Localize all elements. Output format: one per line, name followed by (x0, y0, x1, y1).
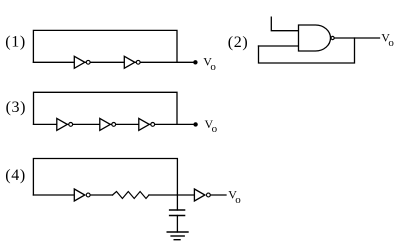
inverter U7 (74, 189, 90, 201)
wire circuit 4 left segment (33, 194, 74, 196)
wire bottom input circuit 2 (259, 45, 299, 47)
wire feedback circuit 2 (259, 38, 355, 63)
svg-text:(2): (2) (228, 34, 248, 51)
wire capacitor to ground (176, 216, 178, 233)
svg-text:(1): (1) (5, 34, 25, 51)
wire resistor to inverter circuit 4 (149, 194, 194, 196)
resistor R1 (113, 192, 150, 199)
inverter U8 (194, 189, 210, 201)
inverter U1 (74, 56, 90, 68)
wire output circuit 2 (335, 37, 380, 39)
wire output circuit 4 (210, 194, 226, 196)
svg-text:(4): (4) (5, 167, 25, 184)
capacitor C1 (170, 210, 185, 216)
svg-text:(3): (3) (6, 99, 26, 116)
node Vo dot circuit 3 (193, 122, 197, 126)
wire bottom circuit 1 (33, 61, 195, 63)
wire input stub circuit 2 (271, 17, 298, 31)
wire feedback loop circuit 4 (33, 159, 177, 196)
inverter U2 (124, 56, 140, 68)
wire bottom circuit 3 (34, 123, 196, 125)
ground (167, 232, 188, 240)
node Vo dot circuit 1 (193, 60, 197, 64)
wire inverter to resistor circuit 4 (90, 194, 112, 196)
nand gate U6 (299, 25, 335, 51)
inverter U4 (100, 118, 116, 130)
wire feedback loop circuit 3 (34, 92, 178, 124)
wire feedback loop circuit 1 (33, 30, 177, 62)
wire junction to capacitor (176, 195, 178, 210)
inverter U3 (57, 118, 73, 130)
inverter U5 (139, 118, 155, 130)
